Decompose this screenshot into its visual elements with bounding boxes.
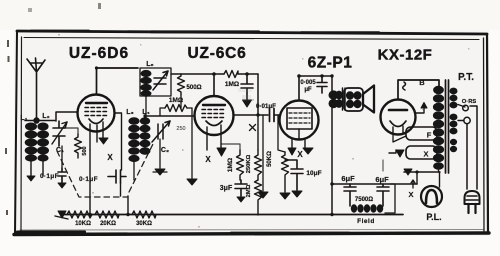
wire cap to V3 grid <box>274 114 281 116</box>
field coil <box>351 204 383 212</box>
svg-text:20KΩ: 20KΩ <box>100 221 116 227</box>
ground 50K <box>280 193 290 199</box>
coil L2 <box>37 123 49 162</box>
svg-text:P.T.: P.T. <box>458 72 474 83</box>
wire lamp feed <box>404 171 440 173</box>
capacitor 0.1uF no.1 <box>58 168 66 183</box>
arrow lamp X <box>411 180 415 188</box>
node x mark <box>250 125 256 131</box>
resistor 20K ohm <box>95 211 119 218</box>
svg-text:O·RS: O·RS <box>462 99 477 105</box>
resistor 10K ohm <box>67 211 92 218</box>
speaker cone <box>363 86 374 113</box>
wire V3 plate to rail <box>298 76 300 101</box>
tube V3 inner box <box>287 108 312 129</box>
wire coil bottoms down <box>31 161 43 176</box>
svg-text:0·005: 0·005 <box>300 80 316 86</box>
power transformer core <box>446 80 449 173</box>
svg-text:Field: Field <box>357 218 375 225</box>
svg-text:10μF: 10μF <box>306 170 321 177</box>
tube V2 legs <box>207 125 221 150</box>
capacitor 0.01uF coupling <box>270 109 275 122</box>
arrow below screen cap <box>243 100 252 107</box>
wire L6 bottom to L3 top <box>145 96 147 117</box>
svg-text:250KΩ: 250KΩ <box>246 154 252 173</box>
tube V2 cathode heater <box>206 121 222 126</box>
ground C2 <box>155 169 165 175</box>
node S squiggle <box>403 82 406 90</box>
svg-text:μF: μF <box>304 87 312 93</box>
arrow on lamp feed <box>404 169 412 175</box>
wire L3 bottom down <box>133 162 135 180</box>
svg-text:1MΩ: 1MΩ <box>225 81 239 88</box>
switch contact 2 <box>464 117 470 123</box>
tube V4 filament <box>390 121 406 127</box>
resistor 1M ohm grid leak <box>165 105 187 112</box>
trimmer capacitor on L6 <box>153 71 168 90</box>
ground grid return <box>258 192 268 198</box>
wire chain x258 down <box>257 115 259 150</box>
capacitor 3uF <box>235 180 247 196</box>
wire C1 bottom branch <box>61 146 63 168</box>
svg-text:1MΩ: 1MΩ <box>227 158 234 172</box>
svg-text:6μF: 6μF <box>341 174 355 183</box>
tube V1 cathode heater <box>89 119 103 124</box>
wire rail 6Z-P1 <box>299 75 332 77</box>
switch contact 1 <box>463 105 469 111</box>
output transformer box <box>344 88 363 111</box>
wire switch to plug left <box>466 124 468 189</box>
svg-text:L₆: L₆ <box>146 61 153 68</box>
wire V1 top cap to L6 <box>97 68 139 95</box>
ground 3uF <box>237 197 245 202</box>
arrow ground left of X box <box>396 150 404 157</box>
resistor 250K vertical <box>255 150 262 180</box>
wire V4 top cap to B <box>398 80 439 100</box>
bottom bus <box>64 214 403 216</box>
terminal box X <box>406 146 437 159</box>
ground tube V1 cathode <box>99 138 108 144</box>
output transformer secondary coil <box>346 91 362 108</box>
coil L6 <box>140 70 152 97</box>
svg-text:2MΩ: 2MΩ <box>246 184 252 197</box>
tube V1 UZ-6D6 envelope <box>78 95 115 132</box>
svg-text:0·1μF: 0·1μF <box>40 173 59 180</box>
wire filter line <box>332 183 417 185</box>
scan speckles <box>58 34 470 228</box>
svg-text:0·1μF: 0·1μF <box>79 176 98 183</box>
wire lamp risers <box>417 172 440 187</box>
svg-text:6Z-P1: 6Z-P1 <box>308 55 353 72</box>
ground bus left end <box>58 211 66 218</box>
pilot lamp filament <box>426 190 437 203</box>
tube V4 legs <box>393 126 403 134</box>
antenna <box>27 58 45 120</box>
variable capacitor C1 <box>52 121 67 146</box>
tube V4 plate <box>389 109 407 112</box>
capacitor 0.1uF no.2 <box>108 170 126 183</box>
ground L1 <box>27 176 35 181</box>
wire PT bottom <box>438 169 440 172</box>
svg-text:X: X <box>297 150 303 159</box>
svg-text:F: F <box>427 131 432 140</box>
coil L3 <box>128 117 140 162</box>
resistor 50K vertical <box>282 152 289 192</box>
svg-text:X: X <box>408 190 413 199</box>
wire V4 side tap arrow <box>416 107 425 113</box>
terminal box F <box>406 127 437 140</box>
wire grid leak right down to ground <box>191 108 193 178</box>
ground V3 right leg <box>303 148 313 154</box>
svg-text:X: X <box>205 155 211 164</box>
resistor 2M ohm vertical <box>255 180 262 215</box>
resistor 1M ohm V2 cathode vertical <box>237 150 244 180</box>
arrow V2 cathode <box>217 148 226 156</box>
wire rail B (y74) <box>171 73 258 75</box>
dashed gang line to C2 <box>129 144 153 192</box>
resistor V1 cathode (vertical zigzag) <box>75 134 82 158</box>
arrow V3 cathode <box>288 148 296 155</box>
svg-text:L₃: L₃ <box>126 109 134 116</box>
wire cathode R to grid box <box>62 128 78 134</box>
power transformer secondary coils <box>450 88 458 153</box>
coil L1 <box>25 123 38 162</box>
wire OPT top <box>331 76 333 91</box>
plug body <box>465 191 480 204</box>
scan wash <box>14 30 489 236</box>
dashed gang line C1 <box>57 151 127 197</box>
svg-text:6μF: 6μF <box>375 175 389 184</box>
tube V3 inner grids <box>289 113 310 123</box>
ground 10uF <box>292 191 302 197</box>
svg-text:L₂: L₂ <box>42 113 49 120</box>
tube V3 6Z-P1 envelope <box>280 101 319 140</box>
stray scan marks left margin <box>5 3 101 215</box>
border frame outer <box>14 31 489 235</box>
svg-text:P.L.: P.L. <box>426 212 441 222</box>
wire antenna coil tops <box>25 120 55 122</box>
wire grid leak ends <box>160 95 192 116</box>
tube V2 UZ-6C6 envelope <box>195 96 234 135</box>
resistor 1M ohm on rail <box>224 71 238 78</box>
resistor 30K ohm <box>132 211 156 218</box>
svg-text:30KΩ: 30KΩ <box>136 221 152 227</box>
variable capacitor C2 <box>152 121 170 142</box>
svg-text:10KΩ: 10KΩ <box>75 221 91 227</box>
ground below grid leak <box>187 179 197 185</box>
node antenna junction <box>33 117 39 123</box>
wire C1 top to tube V1 grid side <box>56 112 77 121</box>
svg-text:X: X <box>107 153 113 162</box>
svg-text:0·01μF: 0·01μF <box>256 103 276 110</box>
border frame inner double lines <box>20 37 484 231</box>
plug prongs <box>469 204 476 213</box>
svg-text:C₂: C₂ <box>161 147 169 154</box>
svg-text:KX-12F: KX-12F <box>378 47 433 64</box>
capacitor screen bypass <box>241 74 253 100</box>
tube V1 legs <box>90 122 103 150</box>
output transformer core <box>343 88 346 110</box>
svg-text:3μF: 3μF <box>220 185 233 192</box>
wire rail drop to plate line <box>257 74 259 115</box>
resistor 500 ohm vertical <box>178 74 185 95</box>
svg-text:50KΩ: 50KΩ <box>267 151 273 167</box>
tube V1 grids <box>85 108 108 116</box>
pilot lamp PL <box>421 186 442 207</box>
power transformer PT primary coil <box>433 86 444 170</box>
box around L6 <box>140 68 171 96</box>
svg-text:B: B <box>419 78 425 87</box>
capacitor 0.005uF <box>317 76 327 93</box>
wire V2 top cap <box>213 74 215 95</box>
tube V1 plate <box>86 102 107 104</box>
svg-text:7500Ω: 7500Ω <box>355 197 373 203</box>
wire C2 bottom to ground <box>159 139 161 168</box>
ground 0.1uF no.1 <box>58 183 66 188</box>
wire OPT bottom to bus <box>331 107 333 214</box>
wire L4 to V2 grid <box>145 116 194 154</box>
wire tube legs to F box <box>393 133 406 142</box>
wire V1 plate side down <box>115 113 122 196</box>
wire V2 cathode top of 1M <box>221 144 240 150</box>
coil L4 <box>140 117 151 155</box>
capacitor 6uF no.1 <box>344 184 356 206</box>
svg-text:250: 250 <box>176 126 185 132</box>
riser to bottom bus <box>90 150 128 215</box>
tube V4 KX-12F envelope <box>381 100 416 135</box>
svg-text:UZ-6C6: UZ-6C6 <box>187 45 246 62</box>
output transformer primary coil <box>329 90 343 108</box>
svg-text:UZ-6D6: UZ-6D6 <box>69 45 129 62</box>
tube V2 plate <box>203 104 225 106</box>
capacitor 6uF2 connect arrow <box>382 160 384 171</box>
border ink blotches <box>16 30 380 235</box>
capacitor 10uF <box>285 160 303 190</box>
capacitor 6uF no.2 <box>377 184 389 206</box>
svg-text:500: 500 <box>82 146 88 155</box>
wire grid return <box>262 115 264 191</box>
svg-text:X: X <box>423 150 428 159</box>
wire cathode branch <box>278 115 285 152</box>
wire fuse to plug right <box>470 106 477 189</box>
tube V2 grids <box>202 110 226 118</box>
svg-text:500Ω: 500Ω <box>186 84 201 91</box>
wire V2 plate out <box>234 114 269 116</box>
tube V3 legs <box>292 129 305 150</box>
switch lever <box>458 105 465 121</box>
wire 6uF2 bracket <box>385 184 395 213</box>
